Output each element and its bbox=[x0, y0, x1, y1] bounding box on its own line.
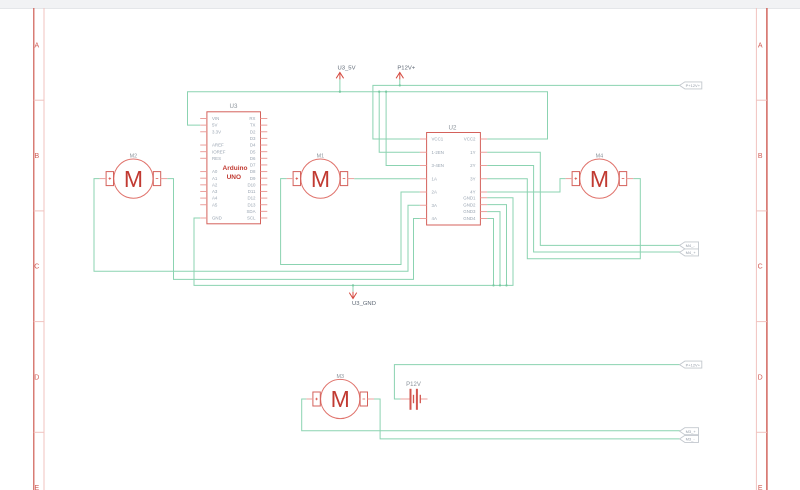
svg-text:U3_GND: U3_GND bbox=[352, 301, 376, 307]
svg-text:D: D bbox=[34, 374, 39, 381]
svg-text:GND4: GND4 bbox=[463, 216, 476, 221]
svg-text:U3_5V: U3_5V bbox=[337, 65, 355, 71]
svg-text:D9: D9 bbox=[250, 176, 256, 181]
wire M1 left to 2A bbox=[281, 179, 420, 265]
pin U2 3Y bbox=[470, 176, 487, 181]
pin U3 SDA bbox=[246, 209, 267, 214]
wire junction bbox=[385, 91, 387, 93]
svg-text:M: M bbox=[331, 386, 350, 412]
svg-text:D2: D2 bbox=[250, 129, 256, 134]
pin U3 RES bbox=[200, 156, 221, 161]
wire net GND to GND4 bbox=[487, 219, 493, 286]
wire junction bbox=[339, 91, 341, 93]
net flag M3_+ bbox=[680, 428, 699, 435]
pin U2 GND1 bbox=[463, 195, 487, 200]
motor M4 bbox=[566, 153, 634, 198]
pin U3 D12 bbox=[247, 196, 267, 201]
pin U3 D11 bbox=[248, 189, 268, 194]
svg-text:TX: TX bbox=[250, 123, 256, 128]
pin U3 IOREF bbox=[200, 149, 226, 154]
wire net GND arrow stub bbox=[352, 285, 354, 291]
svg-text:U3: U3 bbox=[230, 103, 238, 110]
wire net GND to GND2 bbox=[487, 205, 506, 286]
svg-text:Arduino: Arduino bbox=[223, 165, 248, 172]
wire M1 right to 1A bbox=[354, 178, 420, 180]
svg-text:A2: A2 bbox=[212, 182, 218, 187]
svg-text:M2: M2 bbox=[130, 153, 138, 159]
power flag U3_GND bbox=[349, 292, 376, 307]
pin U3 SCL bbox=[247, 216, 267, 221]
value label Arduino UNO bbox=[223, 165, 248, 181]
svg-text:P12V: P12V bbox=[406, 382, 421, 388]
wire 3Y to M4 right bbox=[487, 179, 640, 259]
svg-text:M: M bbox=[124, 166, 143, 192]
pin U3 GND bbox=[200, 216, 222, 221]
svg-text:D5: D5 bbox=[250, 149, 256, 154]
svg-text:D11: D11 bbox=[248, 189, 256, 194]
motor M1 bbox=[287, 153, 355, 198]
wire junction bbox=[399, 84, 401, 86]
pin U3 VIN bbox=[200, 116, 219, 121]
svg-text:A: A bbox=[34, 42, 39, 49]
motor M2 bbox=[100, 153, 168, 198]
svg-text:4A: 4A bbox=[432, 216, 437, 221]
pin U3 AREF bbox=[200, 143, 224, 148]
wire net P12V+ main run bbox=[373, 85, 680, 139]
motor M3 bbox=[306, 374, 374, 419]
svg-text:VCC2: VCC2 bbox=[464, 137, 476, 142]
svg-text:P+12V+: P+12V+ bbox=[686, 83, 701, 88]
wire junction bbox=[505, 284, 507, 286]
svg-text:A1: A1 bbox=[212, 176, 218, 181]
pin U3 A2 bbox=[200, 182, 218, 187]
pin U2 3-4EN bbox=[420, 163, 444, 168]
svg-text:C: C bbox=[34, 264, 39, 271]
wire junction bbox=[352, 284, 354, 286]
svg-text:M3: M3 bbox=[336, 374, 344, 380]
svg-text:D4: D4 bbox=[250, 143, 256, 148]
IC U2 motor driver bbox=[420, 124, 487, 225]
svg-text:RES: RES bbox=[212, 156, 221, 161]
svg-text:3Y: 3Y bbox=[470, 176, 475, 181]
svg-text:AREF: AREF bbox=[212, 143, 224, 148]
pin U3 D4 bbox=[250, 143, 267, 148]
wire M3 right to flag M3_- bbox=[374, 399, 680, 439]
svg-text:3A: 3A bbox=[432, 203, 437, 208]
svg-text:M3_-: M3_- bbox=[686, 437, 696, 442]
wire 1Y to flag M4_- bbox=[487, 152, 680, 245]
IC U3 Arduino UNO bbox=[200, 103, 267, 224]
pin U2 3A bbox=[420, 203, 437, 208]
svg-text:SCL: SCL bbox=[247, 216, 256, 221]
svg-text:GND2: GND2 bbox=[463, 202, 476, 207]
pin U3 D9 bbox=[250, 176, 267, 181]
svg-text:B: B bbox=[34, 153, 39, 160]
svg-text:M1: M1 bbox=[317, 153, 325, 159]
svg-text:M4_-: M4_- bbox=[686, 243, 696, 248]
pin U3 D5 bbox=[250, 149, 267, 154]
svg-text:3-4EN: 3-4EN bbox=[432, 163, 444, 168]
svg-text:M3_+: M3_+ bbox=[686, 429, 697, 434]
pin U2 GND4 bbox=[463, 216, 487, 221]
pin U3 A3 bbox=[200, 189, 218, 194]
pin U3 D3 bbox=[250, 136, 267, 141]
svg-text:D10: D10 bbox=[247, 182, 256, 187]
svg-text:U2: U2 bbox=[449, 124, 457, 131]
svg-text:2Y: 2Y bbox=[470, 163, 475, 168]
svg-text:5V: 5V bbox=[212, 123, 217, 128]
svg-text:P+12V+: P+12V+ bbox=[686, 362, 701, 367]
net flag P+12V+ (top) bbox=[680, 82, 702, 89]
svg-text:A3: A3 bbox=[212, 189, 218, 194]
svg-text:1A: 1A bbox=[432, 176, 437, 181]
wire junction bbox=[499, 284, 501, 286]
svg-text:D: D bbox=[758, 374, 763, 381]
pin U3 5V bbox=[200, 123, 217, 128]
pin U3 TX bbox=[250, 123, 267, 128]
svg-text:E: E bbox=[34, 485, 39, 490]
wire 2Y to flag M4_+ bbox=[487, 166, 680, 253]
svg-text:A: A bbox=[758, 42, 763, 49]
svg-text:IOREF: IOREF bbox=[212, 149, 226, 154]
pin U2 2A bbox=[420, 190, 437, 195]
svg-text:1-2EN: 1-2EN bbox=[432, 150, 444, 155]
wire junction bbox=[492, 284, 494, 286]
svg-text:P12V+: P12V+ bbox=[397, 65, 415, 71]
pin U3 D10 bbox=[247, 182, 267, 187]
svg-text:GND3: GND3 bbox=[463, 209, 476, 214]
svg-text:M: M bbox=[311, 166, 330, 192]
wire junction bbox=[378, 91, 380, 93]
svg-text:B: B bbox=[758, 153, 763, 160]
svg-text:GND1: GND1 bbox=[463, 195, 476, 200]
wire net GND bus from U3 GND bbox=[194, 198, 513, 286]
wire net U3_5V to 3-4EN bbox=[386, 92, 420, 166]
svg-text:SDA: SDA bbox=[246, 209, 255, 214]
wire net GND to GND3 bbox=[487, 212, 500, 286]
pin U2 4Y bbox=[470, 190, 487, 195]
svg-text:1Y: 1Y bbox=[470, 150, 475, 155]
svg-text:A4: A4 bbox=[212, 196, 218, 201]
pin U2 1-2EN bbox=[420, 150, 444, 155]
wire net U3_5V arrow stub bbox=[339, 79, 341, 91]
svg-text:4Y: 4Y bbox=[470, 190, 475, 195]
pin U3 A4 bbox=[200, 196, 218, 201]
svg-text:D13: D13 bbox=[247, 202, 256, 207]
wire M3 left to flag M3_+ bbox=[302, 399, 680, 431]
wire M2 right to 4A bbox=[167, 179, 420, 280]
svg-text:VIN: VIN bbox=[212, 116, 219, 121]
svg-text:A0: A0 bbox=[212, 169, 218, 174]
pin U2 2Y bbox=[470, 163, 487, 168]
svg-text:VCC1: VCC1 bbox=[432, 137, 444, 142]
pin U3 D2 bbox=[250, 129, 267, 134]
pin U2 1Y bbox=[470, 150, 487, 155]
pin U2 4A bbox=[420, 216, 437, 221]
wire net U3_5V to 1-2EN bbox=[379, 92, 420, 153]
svg-text:D7: D7 bbox=[250, 163, 256, 168]
svg-text:3.3V: 3.3V bbox=[212, 129, 221, 134]
pin U3 3.3V bbox=[200, 129, 221, 134]
svg-text:RX: RX bbox=[249, 116, 255, 121]
svg-text:C: C bbox=[758, 264, 763, 271]
battery P12V bbox=[400, 382, 427, 410]
top toolbar strip bbox=[0, 0, 800, 9]
pin U2 1A bbox=[420, 176, 437, 181]
wire battery to flag P+12V+ bbox=[394, 365, 680, 399]
svg-text:GND: GND bbox=[212, 216, 222, 221]
pin U2 GND3 bbox=[463, 209, 487, 214]
pin U2 VCC1 bbox=[420, 137, 444, 142]
svg-text:D6: D6 bbox=[250, 156, 256, 161]
svg-text:D8: D8 bbox=[250, 169, 256, 174]
svg-text:A5: A5 bbox=[212, 202, 218, 207]
wire net P12V+ arrow stub bbox=[399, 79, 401, 85]
svg-text:D12: D12 bbox=[247, 196, 256, 201]
svg-text:M4: M4 bbox=[596, 153, 604, 159]
power flag U3_5V bbox=[336, 65, 355, 79]
pin U3 A0 bbox=[200, 169, 218, 174]
pin U3 D7 bbox=[250, 163, 267, 168]
svg-text:M: M bbox=[590, 166, 609, 192]
wire 4Y to M4 left bbox=[487, 179, 565, 192]
svg-text:M4_+: M4_+ bbox=[686, 250, 697, 255]
wire M2 left to 3A bbox=[94, 179, 420, 272]
pin U3 A5 bbox=[200, 202, 218, 207]
pin U3 RX bbox=[249, 116, 267, 121]
pin U3 D13 bbox=[247, 202, 267, 207]
pin U3 D6 bbox=[250, 156, 267, 161]
net flag M4_- bbox=[680, 242, 699, 249]
wire net U3_5V main run bbox=[188, 92, 548, 139]
pin U2 GND2 bbox=[463, 202, 487, 207]
svg-text:E: E bbox=[758, 485, 763, 490]
net flag M3_- bbox=[680, 435, 699, 442]
svg-text:D3: D3 bbox=[250, 136, 256, 141]
net flag P+12V+ (battery) bbox=[680, 361, 702, 368]
pin U3 D8 bbox=[250, 169, 267, 174]
svg-text:2A: 2A bbox=[432, 190, 437, 195]
net flag M4_+ bbox=[680, 249, 699, 256]
pin U3 A1 bbox=[200, 176, 218, 181]
pin U2 VCC2 bbox=[464, 137, 487, 142]
svg-text:UNO: UNO bbox=[227, 174, 241, 181]
power flag P12V+ bbox=[396, 65, 416, 79]
